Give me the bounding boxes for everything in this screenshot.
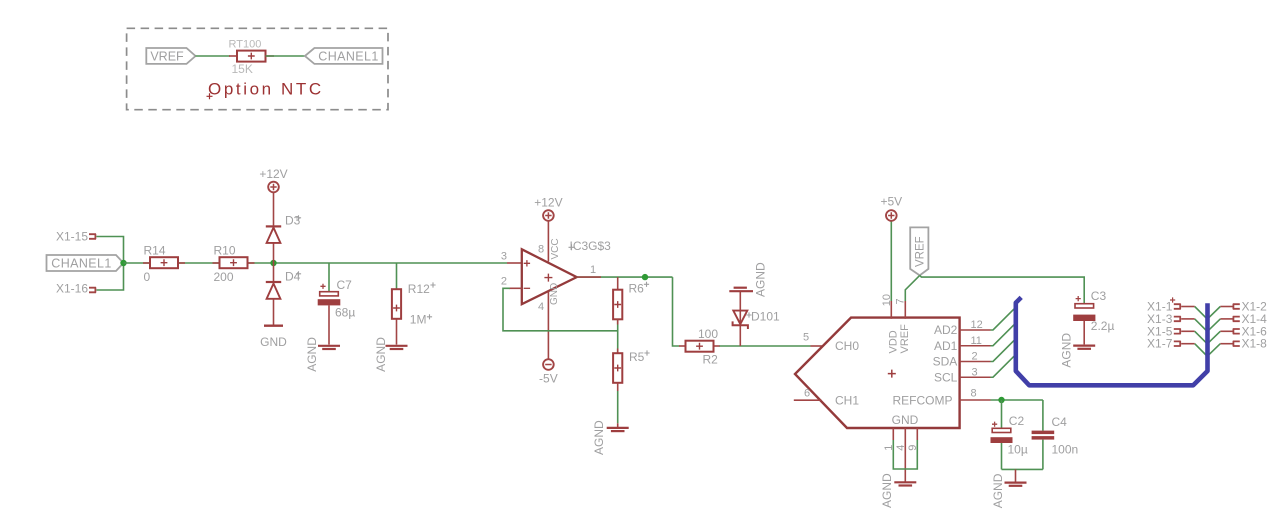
pin X1-2	[1233, 304, 1240, 309]
svg-text:100n: 100n	[1052, 442, 1079, 456]
wire node to D4	[273, 263, 275, 282]
wire X1-8 to bus	[1220, 343, 1233, 345]
svg-text:X1-7: X1-7	[1147, 337, 1173, 351]
svg-text:AGND: AGND	[1060, 333, 1074, 368]
svg-text:R10: R10	[214, 243, 236, 257]
resistor R14	[143, 262, 151, 264]
svg-text:CH1: CH1	[835, 393, 859, 407]
svg-text:AGND: AGND	[991, 473, 1005, 508]
svg-text:IC3G$3: IC3G$3	[570, 239, 612, 253]
frame Option NTC box (dashed)	[127, 28, 388, 109]
wire opamp output	[577, 276, 673, 278]
wire to R12	[396, 263, 398, 290]
svg-text:0: 0	[144, 270, 151, 284]
ground AGND R12	[386, 345, 408, 347]
wire to C2	[1001, 400, 1003, 428]
wire X1-7 to bus	[1181, 343, 1195, 345]
diode D101 (zener)	[739, 292, 741, 346]
wire X1-2 to bus	[1220, 306, 1233, 308]
node junction D3/D4	[270, 260, 276, 266]
svg-text:CHANEL1: CHANEL1	[51, 257, 111, 271]
wire to C4	[1042, 400, 1044, 431]
power -5V	[543, 359, 554, 370]
resistor R12	[392, 289, 401, 319]
ground AGND C3	[1073, 345, 1095, 347]
svg-text:GND: GND	[892, 413, 919, 427]
wire SCL to bus	[991, 354, 1016, 377]
svg-text:+12V: +12V	[259, 167, 287, 181]
ground GND	[264, 325, 283, 327]
svg-text:3: 3	[972, 367, 978, 379]
svg-text:RT100: RT100	[229, 39, 262, 51]
capacitor C2	[992, 422, 997, 427]
ground AGND R5	[607, 427, 629, 429]
pin GND 9	[916, 428, 918, 440]
svg-text:AGND: AGND	[374, 337, 388, 372]
svg-text:VREF: VREF	[899, 324, 911, 354]
wire X1-3 to bus	[1181, 318, 1195, 320]
svg-text:X1-15: X1-15	[56, 229, 88, 243]
svg-text:10µ: 10µ	[1008, 443, 1028, 457]
resistor R5	[613, 353, 622, 383]
wire CHANEL1 to opamp input	[124, 262, 508, 264]
svg-text:VDD: VDD	[887, 330, 899, 353]
svg-text:VCC: VCC	[550, 238, 561, 259]
svg-text:R5: R5	[629, 350, 645, 364]
pin REFCOMP(8)	[960, 399, 991, 401]
svg-text:AGND: AGND	[753, 262, 767, 297]
wire R6 top stub	[617, 277, 619, 290]
svg-text:-5V: -5V	[539, 372, 558, 386]
svg-text:+12V: +12V	[534, 195, 562, 209]
resistor R6	[613, 290, 622, 320]
wire SDA to bus	[991, 339, 1016, 362]
wire output to R2	[673, 277, 680, 346]
resistor RT100	[229, 55, 237, 57]
svg-text:4: 4	[538, 301, 544, 313]
svg-text:X1-8: X1-8	[1242, 337, 1268, 351]
svg-text:R14: R14	[144, 243, 166, 257]
pin VREF(7)	[904, 301, 906, 319]
svg-text:C3: C3	[1091, 289, 1107, 303]
wire caps join	[1002, 468, 1043, 470]
wire X1-1 to bus	[1181, 306, 1195, 308]
svg-text:2.2µ: 2.2µ	[1091, 319, 1115, 333]
pin AD2(12)	[960, 329, 991, 331]
op-amp IC3G$3	[522, 249, 577, 304]
wire opamp pin3 stub	[507, 262, 522, 264]
power +12V (opamp)	[543, 210, 554, 221]
wire to C7	[328, 263, 330, 292]
flag VREF (in NTC box)	[146, 48, 195, 64]
svg-text:VREF: VREF	[915, 236, 927, 267]
wire VREF flag to C3	[920, 275, 1084, 303]
diode D4	[266, 281, 281, 283]
svg-text:C2: C2	[1009, 414, 1025, 428]
wire node to D3	[273, 244, 275, 264]
svg-text:+5V: +5V	[880, 194, 902, 208]
resistor R10	[213, 262, 221, 264]
svg-text:12: 12	[971, 319, 983, 331]
flag CHANEL1	[47, 255, 124, 271]
svg-text:R12: R12	[408, 282, 430, 296]
pin SDA(2)	[960, 361, 991, 363]
wire AD2 to bus	[991, 307, 1016, 330]
pin GND 1	[892, 428, 894, 440]
svg-text:15K: 15K	[232, 62, 253, 76]
svg-text:68µ: 68µ	[335, 306, 355, 320]
ground AGND C2/C4	[1005, 482, 1027, 484]
power +5V	[886, 210, 897, 221]
wire VREF to RT100	[196, 55, 231, 57]
wire X1-4 to bus	[1220, 318, 1233, 320]
flag VREF (vertical)	[910, 227, 928, 275]
pin SCL(3)	[960, 376, 991, 378]
pin X1-4	[1233, 316, 1240, 321]
ground AGND C7	[318, 345, 340, 347]
bus (blue)	[1016, 297, 1208, 385]
svg-text:4: 4	[895, 445, 907, 451]
wire AD1 to bus	[991, 323, 1016, 346]
IC ADC origin cross	[888, 370, 896, 378]
node junction CHANEL1	[120, 260, 126, 266]
svg-text:GND: GND	[260, 335, 287, 349]
svg-text:SCL: SCL	[934, 370, 958, 384]
svg-text:X1-16: X1-16	[56, 281, 88, 295]
pin GND 4	[904, 428, 906, 482]
svg-text:CHANEL1: CHANEL1	[318, 50, 378, 64]
power +12V (left)	[268, 182, 279, 193]
wire X1-16 to node	[96, 263, 123, 290]
svg-text:AD2: AD2	[934, 323, 958, 337]
svg-text:AGND: AGND	[880, 473, 894, 508]
IC ADC body	[795, 318, 960, 428]
resistor R2	[679, 345, 686, 347]
node junction REFCOMP	[998, 397, 1004, 403]
svg-text:CH0: CH0	[835, 339, 859, 353]
svg-text:C7: C7	[337, 278, 353, 292]
wire X1-6 to bus	[1220, 330, 1233, 332]
svg-text:SDA: SDA	[933, 355, 958, 369]
ground AGND D101 (inverted)	[734, 287, 747, 289]
wire R2 to CH0	[720, 345, 811, 347]
svg-text:R2: R2	[703, 352, 719, 366]
wire D4 to GND	[273, 299, 275, 326]
svg-text:AD1: AD1	[934, 339, 958, 353]
pin AD1(11)	[960, 345, 991, 347]
wire opamp pin2 feedback	[509, 287, 522, 289]
svg-text:100: 100	[698, 327, 718, 341]
svg-text:REFCOMP: REFCOMP	[893, 393, 953, 407]
svg-text:GND: GND	[549, 283, 560, 305]
svg-text:3: 3	[501, 251, 507, 263]
capacitor C7	[320, 284, 325, 289]
svg-text:Option NTC: Option NTC	[208, 79, 324, 98]
capacitor C3	[1076, 296, 1081, 301]
diode D3	[267, 228, 281, 243]
wire X1-15 to node	[96, 237, 123, 264]
svg-text:6: 6	[804, 388, 810, 400]
wire REFCOMP to caps	[991, 399, 1043, 401]
flag CHANEL1 (in NTC box)	[305, 48, 383, 64]
wire opamp GND to -5V	[547, 292, 549, 360]
svg-text:8: 8	[971, 388, 977, 400]
svg-text:2: 2	[501, 275, 507, 287]
ground AGND ADC	[894, 481, 916, 483]
wire opamp VCC to +12V	[547, 221, 549, 262]
wire R5 to AGND	[617, 383, 619, 391]
svg-text:1: 1	[590, 264, 596, 276]
origin cross X1-1	[1170, 297, 1175, 302]
pin VDD	[890, 301, 892, 319]
svg-text:1M: 1M	[410, 313, 427, 327]
svg-text:VREF: VREF	[150, 50, 184, 64]
svg-text:D101: D101	[751, 309, 780, 323]
pin CH1	[794, 399, 822, 401]
svg-text:2: 2	[972, 351, 978, 363]
svg-text:AGND: AGND	[305, 337, 319, 372]
svg-text:C4: C4	[1052, 415, 1068, 429]
wire +5V to VDD	[890, 221, 892, 301]
svg-text:200: 200	[214, 270, 234, 284]
wire D3 to +12V	[273, 193, 275, 227]
wire GND pins join	[893, 440, 917, 469]
svg-text:5: 5	[803, 331, 809, 343]
node junction output	[642, 274, 648, 280]
wire R6 to R5	[617, 319, 619, 353]
svg-text:R6: R6	[629, 282, 645, 296]
svg-text:AGND: AGND	[592, 420, 606, 455]
svg-text:8: 8	[538, 244, 544, 256]
capacitor C4	[1032, 431, 1055, 435]
svg-text:11: 11	[971, 335, 982, 347]
pin X1-8	[1233, 341, 1240, 346]
pin X1-6	[1233, 329, 1240, 334]
wire VREF flag to pin7	[905, 275, 919, 301]
wire RT100 to CHANEL1	[266, 55, 305, 57]
wire X1-5 to bus	[1181, 330, 1195, 332]
